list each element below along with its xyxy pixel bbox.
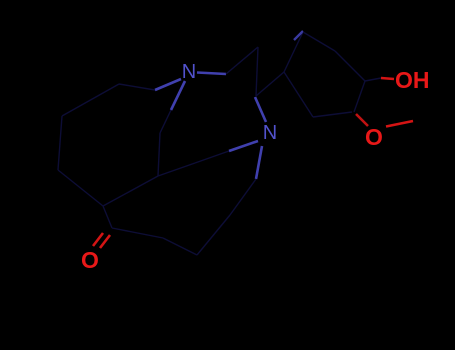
wire: bond P4 to Ck (faint) bbox=[103, 206, 112, 228]
wire: ring edge P5-P5b (faint) bbox=[158, 133, 160, 176]
wire: bond N1 to CH2 Ca (bright horizontal) bbox=[197, 73, 226, 75]
wire: bond N1 to P5b, faint lower half bbox=[160, 110, 171, 133]
wire: bond Z to Vm (faint) bbox=[163, 238, 197, 255]
wire: bond N2 to G, faint half bbox=[195, 151, 229, 163]
wire: ring edge P4-P5 (faint) bbox=[103, 176, 158, 206]
wire: ring edge P1-P2 (faint) bbox=[62, 84, 119, 116]
benzene ring edge V-U (faint) bbox=[335, 51, 365, 81]
svg-text:O: O bbox=[81, 247, 99, 273]
wire: bond Vm to ketone carbon Ck (faint) bbox=[112, 228, 163, 238]
wire: bond N1 to P5b, bright upper half bbox=[171, 81, 185, 110]
ketone double bond red line 2 bbox=[100, 235, 110, 248]
svg-text:O: O bbox=[365, 124, 383, 150]
wire: bond Q to Cb (faint vertical) bbox=[256, 47, 258, 96]
wire: bond Ca to Q (faint) bbox=[226, 47, 258, 74]
wire: bond N2 to H1 (bright) bbox=[256, 146, 262, 179]
svg-text:N: N bbox=[182, 61, 196, 83]
bond T to methoxy O (red) bbox=[356, 114, 368, 126]
benzene aromatic inner dash near S (bright) bbox=[294, 31, 303, 40]
benzene ring edge S-V (faint) bbox=[303, 32, 335, 51]
bond methoxy O to methyl (red) bbox=[386, 121, 413, 127]
wire: bond H1 to H2 (faint) bbox=[230, 179, 256, 215]
wire: ring edge P2-P3 (faint) bbox=[58, 116, 62, 170]
benzene ring edge W-M (faint) bbox=[284, 72, 313, 117]
benzene ring edge M-S (faint) bbox=[284, 32, 303, 72]
bond U to OH oxygen (faint stub then red dash) bbox=[365, 78, 381, 81]
wire: bond G to P5 (faint) bbox=[158, 163, 195, 176]
svg-text:N: N bbox=[263, 122, 277, 144]
svg-text:OH: OH bbox=[395, 67, 430, 93]
wire: bond H2 to Z (faint) bbox=[197, 215, 230, 255]
benzene ring edge U-T (faint) bbox=[354, 81, 365, 112]
hydroxyl bond red dash bbox=[381, 78, 394, 79]
capacitor-like C=O ketone double bond, red line 1 bbox=[93, 233, 103, 246]
wire: bond N2 to G, bright half bbox=[229, 141, 258, 151]
wire: bond Cb to N2 (bright) bbox=[255, 97, 266, 122]
wire: ring edge P3-P4 (faint) bbox=[58, 170, 103, 206]
wire: bond Cb to aryl M (faint) bbox=[256, 72, 284, 96]
wire: bond A to ring vertex P1 (faint C-C) bbox=[119, 84, 155, 90]
benzene ring edge T-W (faint) bbox=[313, 112, 352, 117]
wire: bond N1 to CH2 A (bright) bbox=[155, 79, 181, 90]
